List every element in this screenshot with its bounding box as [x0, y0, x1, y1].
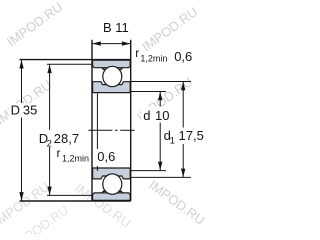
svg-text:r: r — [57, 146, 61, 160]
svg-text:28,7: 28,7 — [54, 131, 79, 146]
svg-text:1: 1 — [170, 136, 175, 147]
svg-text:D: D — [11, 103, 20, 118]
svg-text:1,2min: 1,2min — [140, 54, 167, 64]
svg-text:35: 35 — [23, 103, 37, 118]
svg-text:17,5: 17,5 — [179, 128, 204, 143]
svg-text:1,2min: 1,2min — [62, 153, 89, 163]
svg-text:0,6: 0,6 — [174, 49, 192, 64]
svg-text:r: r — [135, 46, 139, 60]
svg-text:d: d — [143, 108, 150, 123]
svg-text:10: 10 — [155, 108, 169, 123]
svg-text:2: 2 — [47, 139, 52, 150]
svg-text:B 11: B 11 — [103, 20, 129, 35]
svg-text:0,6: 0,6 — [97, 149, 115, 164]
